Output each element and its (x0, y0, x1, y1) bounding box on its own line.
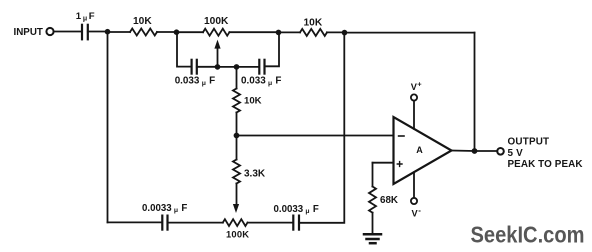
wire op-amp output (452, 150, 498, 153)
wire node E to node F (218, 66, 237, 68)
op-amp noninverting sign (397, 162, 402, 167)
svg-text:100K: 100K (226, 228, 249, 239)
R5 wiper arrow to R6 (233, 204, 239, 213)
wire op-amp to V- (413, 172, 415, 198)
node D junction (342, 30, 348, 36)
wire node B to R2 (177, 31, 204, 33)
wire V+ to op-amp (413, 101, 415, 129)
svg-text:68K: 68K (380, 195, 398, 206)
svg-text:0.033μF: 0.033μF (175, 76, 215, 87)
svg-text:PEAK TO PEAK: PEAK TO PEAK (508, 159, 584, 170)
wire node B down to upper tee (177, 32, 191, 66)
svg-text:A: A (416, 145, 423, 155)
wire C3 up to node C (265, 32, 280, 66)
svg-text:0.0033μF: 0.0033μF (142, 203, 187, 214)
op-amp inverting sign (399, 135, 404, 137)
svg-text:-: - (418, 206, 421, 215)
node B junction (174, 29, 180, 35)
wire C1 to node A (88, 31, 108, 33)
node G junction (R4/R5 to op-amp) (234, 133, 240, 139)
output terminal (497, 148, 504, 155)
resistor R3 10K (300, 29, 327, 36)
output node junction (472, 148, 478, 154)
feedback wire vertical to output node (474, 33, 476, 151)
svg-text:INPUT: INPUT (14, 27, 43, 38)
node E junction (wiper tap) (215, 64, 221, 70)
svg-text:+: + (417, 80, 422, 89)
capacitor C2 0.033uF (192, 60, 197, 74)
V- supply terminal (411, 198, 417, 204)
capacitor C3 0.033uF (259, 60, 264, 74)
wire C2 to wiper node E (197, 66, 218, 68)
svg-text:10K: 10K (244, 95, 262, 106)
svg-text:0.0033μF: 0.0033μF (274, 204, 319, 215)
wire node G to op-amp inverting input (237, 135, 394, 137)
svg-text:SeekIC.com: SeekIC.com (471, 222, 585, 248)
resistor R4 10K vertical (233, 67, 240, 136)
wire node D to feedback corner (345, 32, 475, 34)
capacitor C1 1uF (82, 25, 88, 40)
svg-text:OUTPUT: OUTPUT (508, 137, 550, 148)
svg-text:10K: 10K (133, 16, 152, 27)
input terminal (46, 28, 53, 35)
wire R2 to node C (230, 31, 279, 33)
resistor R5 3.3K vertical (233, 136, 240, 205)
wire node A to R1 (108, 31, 131, 33)
resistor R1 10K (130, 29, 157, 36)
wire node C to R3 (279, 31, 301, 33)
capacitor C5 0.0033uF (293, 216, 299, 230)
svg-text:3.3K: 3.3K (244, 168, 266, 179)
wire R6 to C5 (248, 222, 293, 224)
wire R3 to node D (327, 31, 345, 33)
wire noninverting input (373, 162, 394, 164)
svg-text:100K: 100K (204, 16, 229, 27)
svg-text:0.033μF: 0.033μF (241, 76, 281, 87)
capacitor C4 0.0033uF (162, 216, 167, 230)
op-amp U1 triangle (394, 117, 452, 184)
wire C4 to R6 (168, 222, 223, 224)
wire R1 to node B (157, 31, 177, 33)
wire node F to C3 (237, 66, 260, 68)
R2 wiper arrow (214, 40, 220, 67)
bottom rail wire right and up to node D (299, 33, 344, 223)
node C junction (276, 30, 282, 36)
potentiometer R6 100K body (223, 219, 248, 226)
V+ supply terminal (411, 94, 417, 100)
resistor R7 68K vertical (369, 163, 376, 234)
bottom rail wire left (108, 221, 163, 223)
node A junction (105, 29, 111, 35)
wire node A down left side (107, 32, 109, 223)
ground symbol (364, 234, 381, 243)
svg-text:5 V: 5 V (508, 148, 524, 159)
svg-text:1μF: 1μF (76, 11, 95, 22)
wire input terminal to C1 (54, 31, 82, 33)
potentiometer R2 100K body (203, 29, 229, 36)
svg-text:10K: 10K (304, 17, 323, 28)
node F junction (top of R4) (234, 64, 240, 70)
